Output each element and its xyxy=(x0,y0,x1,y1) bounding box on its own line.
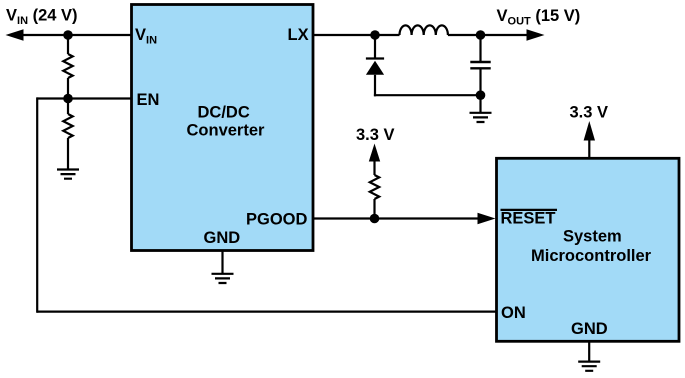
svg-text:EN: EN xyxy=(137,91,160,109)
wire EN horizontal xyxy=(37,97,131,99)
wire inductor to output node xyxy=(448,34,481,36)
ground (divider) xyxy=(57,170,79,179)
DC/DC converter block U1 xyxy=(132,5,314,251)
wire node to output ground xyxy=(479,95,481,113)
ground (U1 GND) xyxy=(212,274,234,283)
wire VIN horizontal xyxy=(20,34,132,36)
pin label EN (U1) xyxy=(137,91,160,109)
node junction at VOUT/capacitor xyxy=(476,30,486,40)
svg-text:System: System xyxy=(563,228,622,246)
wire 3.3 V into microcontroller xyxy=(588,140,590,159)
node junction at PGOOD pull-up tap xyxy=(370,214,380,224)
pin label VIN (U1) xyxy=(135,26,157,47)
wire GND pin U1 to ground xyxy=(221,251,223,274)
wire diode anode to capacitor bottom xyxy=(374,94,481,96)
pin label PGOOD (U1) xyxy=(246,210,308,228)
svg-text:LX: LX xyxy=(288,26,309,44)
arrow into RESET (pointing right) xyxy=(478,213,496,224)
svg-text:ON: ON xyxy=(501,304,526,322)
label VIN (24 V) xyxy=(6,6,78,27)
svg-text:GND: GND xyxy=(571,320,608,338)
pin label GND (U2) xyxy=(571,320,608,338)
pin label RESET (active low, U2) xyxy=(501,210,558,228)
node junction at capacitor bottom xyxy=(476,90,486,100)
wire pull-up node to R3 xyxy=(373,199,375,219)
System Microcontroller block U2 xyxy=(497,158,680,341)
svg-text:VOUT (15 V): VOUT (15 V) xyxy=(497,7,581,28)
arrow 3.3 V microcontroller rail (pointing up) xyxy=(584,121,595,141)
resistor R1 (upper divider) xyxy=(63,54,72,78)
label 3.3 V (pull-up rail) xyxy=(356,126,395,144)
label 3.3 V (microcontroller rail) xyxy=(570,103,609,121)
inductor L1 xyxy=(400,25,448,35)
resistor R3 (PGOOD pull-up) xyxy=(370,175,379,199)
node junction at EN divider tap xyxy=(63,94,73,104)
wire R1 to EN node xyxy=(67,78,69,99)
wire LX output xyxy=(313,34,400,36)
node junction at diode/LX xyxy=(370,30,380,40)
wire diode anode down xyxy=(374,75,376,97)
ground (U2 GND) xyxy=(578,362,600,371)
resistor R2 (lower divider) xyxy=(63,114,72,138)
arrow 3.3 V pull-up rail (pointing up) xyxy=(369,144,380,162)
wire EN node to R2 xyxy=(67,99,69,115)
wire VOUT horizontal xyxy=(481,34,529,36)
svg-text:VIN (24 V): VIN (24 V) xyxy=(6,6,78,27)
node junction at VIN divider tap xyxy=(63,30,73,40)
wire PGOOD to RESET xyxy=(313,217,480,219)
wire EN loop bottom to ON xyxy=(37,311,496,313)
label VOUT (15 V) xyxy=(497,7,581,28)
wire R2 to ground xyxy=(67,138,69,170)
svg-text:Converter: Converter xyxy=(187,121,266,139)
svg-text:DC/DC: DC/DC xyxy=(198,103,250,121)
wire GND pin U2 to ground xyxy=(588,341,590,361)
ground (output filter) xyxy=(470,113,492,122)
pin label LX (U1) xyxy=(288,26,309,44)
arrow VIN (pointing left) xyxy=(6,29,24,40)
wire R3 to 3.3 V arrow xyxy=(373,161,375,176)
diode D1 (catch diode, cathode up) xyxy=(366,59,384,75)
svg-text:3.3 V: 3.3 V xyxy=(570,103,609,121)
svg-text:RESET: RESET xyxy=(501,210,556,228)
svg-text:PGOOD: PGOOD xyxy=(246,210,308,228)
wire output node to capacitor top plate xyxy=(479,35,481,62)
pin label ON (U2) xyxy=(501,304,526,322)
svg-text:3.3 V: 3.3 V xyxy=(356,126,395,144)
capacitor C1 xyxy=(470,62,490,68)
svg-text:GND: GND xyxy=(204,229,241,247)
wire VIN node to R1 xyxy=(67,35,69,54)
pin label GND (U1) xyxy=(204,229,241,247)
svg-text:Microcontroller: Microcontroller xyxy=(531,247,652,265)
arrow VOUT (pointing right) xyxy=(527,29,545,40)
wire capacitor bottom plate to node xyxy=(479,68,481,95)
wire LX node to diode cathode xyxy=(374,35,376,59)
wire EN loop vertical (left side) xyxy=(36,97,38,312)
